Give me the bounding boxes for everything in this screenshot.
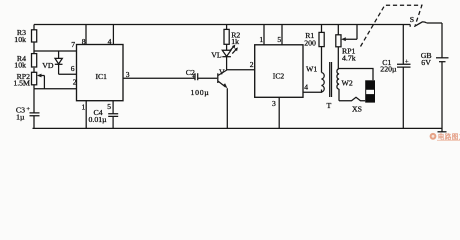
pin 8 wire bbox=[85, 25, 87, 45]
op-amp IC1 bbox=[77, 45, 124, 101]
resistor R2 bbox=[224, 25, 240, 51]
LED VL bbox=[211, 45, 238, 60]
potentiometer RP2 bbox=[13, 72, 44, 89]
resistor R3 bbox=[14, 25, 36, 52]
svg-text:+: + bbox=[405, 59, 409, 66]
pin 4 wire bbox=[303, 90, 322, 93]
timer IC2 bbox=[255, 45, 303, 98]
svg-text:10k: 10k bbox=[14, 35, 26, 44]
svg-text:3: 3 bbox=[272, 99, 276, 108]
svg-text:220µ: 220µ bbox=[380, 65, 397, 74]
svg-text:V: V bbox=[219, 68, 225, 77]
svg-text:5: 5 bbox=[277, 35, 281, 44]
socket XS bbox=[352, 80, 375, 113]
svg-text:+: + bbox=[192, 74, 196, 81]
svg-text:2: 2 bbox=[73, 78, 77, 87]
resistor R4 bbox=[14, 51, 36, 72]
pin 5 wire bbox=[281, 25, 283, 45]
svg-text:8: 8 bbox=[82, 37, 86, 46]
svg-text:W1: W1 bbox=[306, 64, 317, 73]
capacitor C1 bbox=[380, 25, 410, 129]
wire VD cathode to IC1 pin6 bbox=[59, 73, 77, 75]
svg-text:1.5M: 1.5M bbox=[13, 79, 30, 88]
wire bottom rail bbox=[33, 127, 443, 129]
transformer T primary W1 bbox=[306, 64, 324, 92]
svg-text:4: 4 bbox=[108, 37, 112, 46]
capacitor C4 bbox=[89, 108, 119, 129]
svg-text:6V: 6V bbox=[421, 58, 431, 67]
pin 1 wire bbox=[263, 25, 265, 45]
svg-text:200: 200 bbox=[304, 38, 316, 47]
svg-text:T: T bbox=[327, 101, 332, 110]
svg-text:4.7k: 4.7k bbox=[342, 53, 356, 62]
svg-text:IC1: IC1 bbox=[96, 72, 108, 81]
watermark bbox=[430, 132, 460, 141]
pin 3 wire bbox=[278, 97, 280, 128]
svg-text:电路图之家: 电路图之家 bbox=[438, 132, 460, 141]
svg-text:W2: W2 bbox=[342, 78, 353, 87]
svg-text:4: 4 bbox=[304, 83, 308, 92]
svg-text:1: 1 bbox=[82, 102, 86, 111]
svg-text:100µ: 100µ bbox=[191, 88, 210, 97]
pin 4 wire bbox=[112, 25, 114, 45]
svg-text:2: 2 bbox=[250, 60, 254, 69]
svg-text:XS: XS bbox=[352, 104, 362, 113]
transistor V bbox=[218, 57, 228, 129]
svg-text:S: S bbox=[410, 15, 414, 24]
wire IC1 pin3 to C2 bbox=[123, 77, 195, 79]
switch S bbox=[410, 15, 442, 27]
wire collector node to IC2 pin2 bbox=[227, 69, 255, 71]
svg-text:7: 7 bbox=[71, 40, 75, 49]
svg-text:1µ: 1µ bbox=[16, 112, 25, 121]
resistor R1 bbox=[304, 25, 324, 73]
transformer core bbox=[330, 62, 332, 97]
svg-text:1: 1 bbox=[259, 35, 263, 44]
svg-text:VL: VL bbox=[211, 50, 222, 59]
wire W2 top to XS bbox=[338, 69, 373, 81]
wire node R3/R4 to IC1 pin7 bbox=[34, 50, 77, 52]
capacitor C3 bbox=[16, 89, 40, 129]
potentiometer RP1 bbox=[336, 25, 357, 63]
svg-text:IC2: IC2 bbox=[273, 72, 285, 81]
svg-text:0.01µ: 0.01µ bbox=[89, 115, 108, 124]
svg-text:+: + bbox=[26, 106, 30, 113]
diode VD bbox=[42, 51, 62, 74]
svg-text:5: 5 bbox=[107, 102, 111, 111]
wire RP2/C3 node to IC1 pin2 bbox=[34, 88, 77, 90]
battery GB bbox=[421, 23, 449, 132]
svg-text:6: 6 bbox=[71, 64, 75, 73]
pin 1 wire bbox=[85, 101, 87, 129]
svg-text:10k: 10k bbox=[14, 60, 26, 69]
transformer secondary W2 bbox=[337, 47, 353, 101]
capacitor C2 bbox=[186, 68, 217, 97]
wire W2 bottom to XS with kink bbox=[339, 97, 365, 101]
wire top rail bbox=[34, 24, 410, 26]
svg-text:VD: VD bbox=[42, 61, 54, 70]
dashed linkage bbox=[361, 5, 422, 46]
pin 5 wire bbox=[112, 101, 114, 114]
svg-text:3: 3 bbox=[126, 70, 130, 79]
